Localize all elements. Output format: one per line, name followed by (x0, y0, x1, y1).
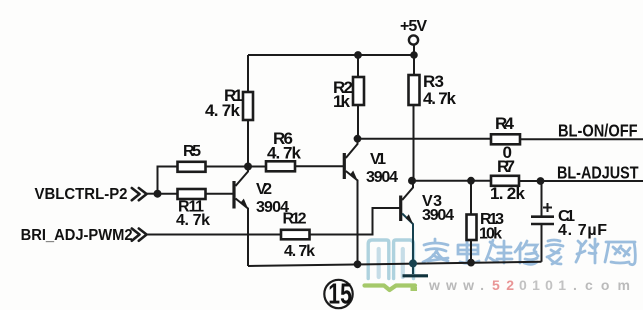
wire top rail (248, 54, 414, 56)
svg-text:R4: R4 (495, 114, 515, 133)
svg-text:4. 7k: 4. 7k (284, 243, 315, 260)
svg-text:10k: 10k (479, 226, 502, 243)
svg-text:BL-ON/OFF: BL-ON/OFF (558, 121, 638, 141)
wire +5V to rail (413, 45, 415, 55)
watermark book icon (365, 240, 418, 291)
wire R3 bottom lead to V3 collector node (413, 105, 415, 181)
net label BL-ON/OFF (558, 121, 638, 141)
+5V terminal circle (409, 35, 418, 44)
wire R1 top lead (247, 55, 249, 92)
watermark url www.520101.com (428, 277, 630, 293)
net label BRI_ADJ-PWM2 (21, 226, 133, 244)
svg-text:4. 7k: 4. 7k (205, 101, 241, 120)
node R2/V1 collector junction (354, 135, 362, 143)
网 (605, 242, 635, 265)
node VBLCTRL junction (154, 190, 162, 198)
svg-text:4. 7µF: 4. 7µF (558, 222, 607, 239)
resistor R4 (491, 134, 520, 144)
watermark Chinese characters (423, 239, 635, 265)
svg-text:3904: 3904 (366, 169, 398, 186)
svg-text:15: 15 (328, 278, 352, 310)
svg-text:R5: R5 (183, 143, 201, 160)
capacitor C1 (531, 181, 554, 262)
wire R2 bottom lead (357, 105, 359, 139)
wire R11 left lead (158, 193, 178, 195)
svg-text:BL-ADJUST: BL-ADJUST (557, 163, 639, 183)
svg-text:4. 7k: 4. 7k (423, 89, 457, 108)
net label VBLCTRL-P2 (35, 185, 128, 203)
svg-text:3904: 3904 (422, 207, 454, 224)
node V3 collector junction (408, 177, 416, 185)
svg-text:5 2: 5 2 (492, 277, 514, 293)
connector chevron VBLCTRL-P2 (132, 188, 147, 200)
svg-text:1. 2k: 1. 2k (490, 184, 526, 203)
transistor V2 (234, 167, 248, 267)
node R13 bottom junction (467, 259, 475, 267)
net label BL-ADJUST (557, 163, 639, 183)
transistor V1 (344, 139, 357, 265)
wire R11 right lead to V2 base (206, 193, 233, 195)
维 (486, 240, 512, 263)
ground (403, 263, 429, 275)
node R13 top junction (467, 177, 475, 185)
wire R13 top lead (470, 181, 472, 215)
svg-text:R12: R12 (283, 211, 307, 228)
node V1 emitter ground junction (354, 260, 362, 268)
node V3 emitter ground junction (409, 259, 417, 267)
svg-text:VBLCTRL-P2: VBLCTRL-P2 (35, 185, 128, 203)
resistor R7 (491, 176, 519, 186)
node V2 collector junction (244, 163, 252, 171)
connector chevron BRI_ADJ-PWM2 (132, 229, 147, 241)
node R2 top junction (354, 51, 362, 59)
resistor R5 (178, 162, 206, 172)
资 (546, 240, 563, 264)
resistor R12 (281, 230, 310, 240)
svg-text:w w w .: w w w . (428, 277, 484, 293)
wire ground rail (248, 262, 542, 266)
svg-text:BRI_ADJ-PWM2: BRI_ADJ-PWM2 (21, 226, 133, 244)
家 (423, 239, 448, 262)
wire R5 right lead (206, 166, 249, 168)
svg-text:V2: V2 (256, 181, 272, 198)
resistor R2 (353, 77, 364, 105)
wire BL-ON/OFF row right (520, 138, 643, 140)
wire BL-ADJUST row right (519, 180, 643, 182)
svg-text:4. 7k: 4. 7k (176, 212, 210, 229)
svg-text:4. 7k: 4. 7k (267, 144, 302, 163)
wire R13 bottom lead (470, 240, 472, 263)
wire R1 bottom lead (247, 120, 249, 167)
料 (576, 239, 598, 263)
wire R12 right lead to V3 base (310, 208, 400, 235)
wire R3 top lead (413, 55, 415, 75)
resistor R6 (266, 161, 295, 171)
电 (458, 239, 479, 263)
resistor R11 (178, 189, 206, 199)
svg-text:R7: R7 (497, 157, 515, 176)
wire BL-ADJUST row left (412, 180, 491, 182)
svg-text:0 1 0 1: 0 1 0 1 (519, 277, 566, 293)
wire R6 left lead (248, 166, 266, 168)
svg-text:+5V: +5V (400, 18, 427, 35)
wire R6 right lead to V1 base (295, 165, 343, 167)
node +5V junction (410, 51, 418, 59)
resistor R3 (409, 75, 420, 105)
resistor R1 (243, 92, 253, 120)
resistor R13 (467, 215, 477, 241)
wire BL-ON/OFF row left (358, 138, 492, 140)
wire BRI row to R12 (147, 234, 282, 236)
svg-text:. c o m: . c o m (573, 277, 630, 293)
figure number 15 (324, 278, 352, 310)
transistor V3 (401, 181, 413, 264)
node C1 top junction (537, 177, 545, 185)
修 (515, 241, 538, 264)
wire R2 top lead (357, 55, 359, 77)
svg-text:1k: 1k (333, 92, 351, 111)
svg-text:V1: V1 (370, 151, 386, 168)
wire VBLCTRL stub (147, 193, 158, 195)
wire R5 branch up (158, 167, 178, 194)
